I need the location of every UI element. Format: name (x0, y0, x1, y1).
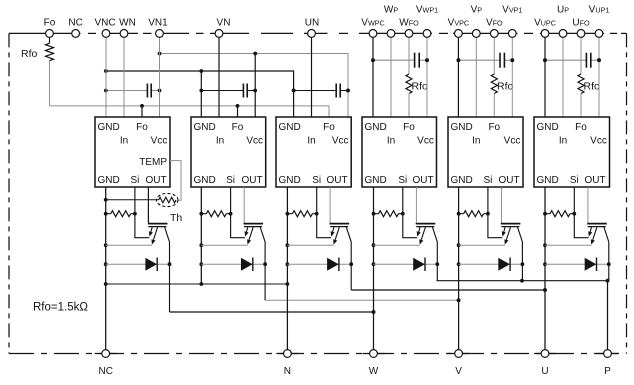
wire Fo net to Fo bus (49, 61, 51, 106)
wire VFO lower (493, 94, 495, 118)
transistor Q6 (IGBT) (587, 224, 609, 245)
wire WFO lower (408, 94, 410, 118)
svg-text:UFO: UFO (572, 17, 590, 28)
svg-text:OUT: OUT (412, 175, 433, 186)
wire UFO lower (580, 94, 582, 118)
svg-text:OUT: OUT (326, 175, 347, 186)
wire Si sense phase 3 (317, 187, 331, 238)
resistor gate R6 (545, 211, 576, 217)
svg-text:UN: UN (305, 17, 319, 28)
capacitor C4 (VWPC-VWP1) (371, 53, 429, 68)
wire collector of Q3 to output (349, 242, 547, 292)
resistor gate R5 (459, 211, 490, 217)
svg-text:Si: Si (226, 175, 235, 186)
resistor gate R3 (287, 211, 318, 217)
pin VNC (94, 17, 115, 117)
svg-text:NC: NC (68, 17, 82, 28)
resistor Rfo (VFO) (491, 74, 497, 94)
svg-text:WP: WP (384, 5, 398, 16)
capacitor C6 (VUPC-VUP1) (543, 53, 601, 68)
svg-text:OUT: OUT (498, 175, 519, 186)
wire GND drop box2 (200, 71, 202, 117)
capacitor C2 (box2 GND-Vcc) (199, 84, 257, 98)
pin U (bottom) (541, 350, 549, 377)
svg-text:GND: GND (365, 122, 387, 133)
diode D1 (145, 258, 157, 272)
diode D6 (585, 258, 597, 272)
op-amp substitute: gate driver IC U5 (448, 117, 523, 187)
wire WFO upper (408, 33, 410, 74)
svg-text:W: W (369, 366, 379, 377)
resistor Rfo (WFO) (406, 74, 412, 94)
wire OUT gate drive phase 3 (329, 187, 331, 223)
wire freewheel diode row phase 2 (201, 263, 265, 265)
pin NC (bottom) (98, 350, 112, 377)
wire emitter/GND rail phase 6 (543, 187, 547, 354)
wire freewheel diode row phase 5 (459, 263, 523, 265)
svg-text:GND: GND (537, 175, 559, 186)
wire emitter return phase 4 (374, 244, 420, 246)
pin VP (471, 5, 483, 38)
wire collector of Q1 to output (168, 242, 376, 314)
wire OUT gate drive phase 4 (415, 187, 417, 223)
svg-text:Fo: Fo (488, 122, 500, 133)
wire N bus (low-side emitters) (106, 282, 288, 286)
capacitor C1 (VNC-VN1) (104, 84, 162, 98)
svg-text:GND: GND (279, 122, 301, 133)
svg-text:WN: WN (119, 17, 136, 28)
svg-text:Vcc: Vcc (151, 136, 168, 147)
svg-text:Si: Si (570, 175, 579, 186)
wire VVP1 supply (510, 33, 514, 117)
wire emitter return phase 6 (545, 244, 591, 246)
svg-text:Fo: Fo (575, 122, 587, 133)
op-amp substitute: gate driver IC U4 (362, 117, 437, 187)
op-amp substitute: gate driver IC U3 (276, 117, 351, 187)
wire emitter/GND rail phase 5 (457, 187, 461, 354)
resistor gate R2 (201, 211, 232, 217)
svg-text:N: N (284, 366, 291, 377)
svg-text:VN: VN (217, 17, 231, 28)
label Rfo (UFO) (584, 81, 601, 93)
pin NC (top) (68, 17, 82, 37)
wire V-side control supply VPC (457, 33, 461, 117)
wire Fo drop box1 (141, 106, 143, 117)
pin Fo (44, 17, 56, 37)
svg-text:Si: Si (312, 175, 321, 186)
wire OUT gate drive phase 5 (501, 187, 503, 223)
svg-text:In: In (472, 136, 480, 147)
pin WN (119, 17, 136, 117)
svg-text:VN1: VN1 (148, 17, 168, 28)
resistor gate R1 (106, 211, 137, 217)
svg-text:In: In (216, 136, 224, 147)
svg-text:Rfo: Rfo (584, 81, 601, 93)
wire W-side control supply VPC (371, 33, 375, 117)
svg-text:Rfo=1.5kΩ: Rfo=1.5kΩ (33, 302, 88, 314)
thermistor Th (156, 193, 178, 206)
pin UP (557, 5, 569, 38)
svg-text:VNC: VNC (94, 17, 115, 28)
diode D3 (327, 258, 339, 272)
capacitor C3 (box3 GND-Vcc) (292, 84, 350, 98)
svg-text:GND: GND (451, 122, 473, 133)
pin UN (305, 17, 319, 117)
pin UFO (572, 17, 590, 37)
resistor Rfo (fault output pull-up) (46, 38, 54, 61)
svg-text:Vcc: Vcc (417, 136, 434, 147)
wire U-side control supply VPC (543, 33, 547, 117)
svg-text:VWP1: VWP1 (416, 5, 438, 16)
svg-text:Rfo: Rfo (412, 81, 429, 93)
wire collector of Q2 to output (263, 242, 460, 302)
svg-text:Vcc: Vcc (246, 136, 263, 147)
wire freewheel diode row phase 6 (545, 263, 609, 265)
wire Si sense phase 1 (135, 187, 149, 238)
wire emitter return phase 5 (459, 244, 505, 246)
wire emitter return phase 2 (201, 244, 247, 246)
wire VFO upper (493, 33, 495, 74)
wire Si sense phase 2 (231, 187, 245, 238)
wire VN1 supply bus (158, 52, 350, 117)
wire VUP1 supply (597, 33, 601, 117)
svg-text:V: V (455, 366, 462, 377)
svg-text:Si: Si (398, 175, 407, 186)
wire UP input (562, 33, 564, 117)
svg-text:GND: GND (537, 122, 559, 133)
op-amp substitute: gate driver IC U2 (191, 117, 266, 187)
resistor Rfo (UFO) (578, 74, 584, 94)
svg-text:TEMP: TEMP (139, 157, 167, 168)
wire freewheel diode row phase 4 (374, 263, 438, 265)
svg-text:In: In (559, 136, 567, 147)
pin P (bottom) (604, 350, 612, 377)
resistor gate R4 (374, 211, 405, 217)
svg-text:In: In (307, 136, 315, 147)
wire collector of Q5 to output (521, 242, 525, 281)
svg-text:VFO: VFO (486, 17, 503, 28)
svg-text:In: In (120, 136, 128, 147)
transistor Q3 (IGBT) (330, 224, 352, 245)
svg-text:VP: VP (471, 5, 483, 16)
wire collector of Q4 to output (435, 242, 439, 281)
svg-text:GND: GND (365, 175, 387, 186)
svg-text:VUPC: VUPC (534, 17, 556, 28)
wire Si sense phase 6 (574, 187, 588, 238)
svg-text:GND: GND (98, 175, 120, 186)
wire emitter return phase 1 (106, 244, 152, 246)
pin VVP1 (502, 5, 522, 38)
wire VP input (475, 33, 477, 117)
wire freewheel diode row phase 1 (106, 263, 170, 265)
wire WP input (390, 33, 392, 117)
svg-text:Fo: Fo (44, 17, 56, 28)
svg-text:VVP1: VVP1 (502, 5, 522, 16)
svg-text:OUT: OUT (145, 175, 166, 186)
svg-text:Fo: Fo (136, 122, 148, 133)
wire emitter/GND rail phase 2 (199, 187, 203, 284)
wire Si sense phase 4 (403, 187, 417, 238)
svg-text:GND: GND (279, 175, 301, 186)
wire P rail (607, 281, 609, 354)
wire Fo drop box2 (237, 106, 239, 117)
transistor Q5 (IGBT) (501, 224, 523, 245)
diode D2 (241, 258, 253, 272)
wire UFO upper (580, 33, 582, 74)
svg-text:VUP1: VUP1 (589, 5, 610, 16)
pin V (bottom) (455, 350, 463, 377)
wire freewheel diode row phase 3 (287, 263, 351, 265)
capacitor C5 (VVPC-VVP1) (457, 53, 515, 68)
wire Fo bus (to driver Fo pins) (50, 104, 330, 117)
wire Si sense phase 5 (488, 187, 502, 238)
svg-text:WFO: WFO (399, 17, 419, 28)
diode D4 (413, 258, 425, 272)
svg-text:OUT: OUT (584, 175, 605, 186)
label Rfo value (33, 302, 88, 314)
svg-text:GND: GND (194, 122, 216, 133)
wire emitter return phase 3 (287, 244, 333, 246)
wire thermistor to GND rail (106, 199, 159, 201)
pin WP (384, 5, 398, 38)
pin VWPC (361, 17, 384, 37)
wire VWP1 supply (425, 33, 429, 117)
op-amp substitute: gate driver IC U1 (95, 117, 170, 187)
transistor Q2 (IGBT) (244, 224, 266, 245)
label Rfo (WFO) (412, 81, 429, 93)
transistor Q1 (IGBT) (148, 224, 170, 245)
pin N (bottom) (284, 350, 292, 377)
wire OUT gate drive phase 1 (147, 187, 149, 223)
svg-text:GND: GND (451, 175, 473, 186)
transistor Q4 (IGBT) (416, 224, 438, 245)
svg-text:Si: Si (130, 175, 139, 186)
svg-text:Fo: Fo (403, 122, 415, 133)
svg-text:Fo: Fo (323, 122, 335, 133)
pin VN (215, 17, 230, 117)
svg-text:GND: GND (194, 175, 216, 186)
svg-text:GND: GND (98, 122, 120, 133)
wire P bus (high-side collectors) (437, 279, 610, 283)
wire collector of Q6 to output (607, 242, 611, 281)
svg-text:VVPC: VVPC (448, 17, 469, 28)
wire emitter/GND rail phase 1 (104, 187, 108, 354)
pin WFO (399, 17, 419, 37)
pin VVPC (448, 17, 469, 37)
pin W (bottom) (369, 350, 379, 377)
svg-text:Vcc: Vcc (590, 136, 607, 147)
svg-text:UP: UP (557, 5, 569, 16)
pin VUPC (534, 17, 556, 37)
svg-text:P: P (604, 366, 611, 377)
label Th (170, 212, 182, 224)
pin VFO (486, 17, 503, 37)
wire Vcc drop box2 (254, 54, 256, 118)
wire TEMP lead (170, 161, 181, 201)
svg-text:NC: NC (98, 366, 112, 377)
svg-text:Vcc: Vcc (504, 136, 521, 147)
svg-text:VWPC: VWPC (361, 17, 384, 28)
wire emitter/GND rail phase 4 (372, 187, 376, 354)
svg-text:In: In (387, 136, 395, 147)
pin VUP1 (589, 5, 610, 38)
svg-text:U: U (541, 366, 548, 377)
wire emitter/GND rail phase 3 (286, 187, 290, 354)
wire VNC ground bus (104, 69, 296, 117)
svg-text:Si: Si (483, 175, 492, 186)
label Rfo (21, 48, 38, 60)
pin VWP1 (416, 5, 438, 38)
svg-text:Rfo: Rfo (497, 81, 514, 93)
pin VN1 (148, 17, 168, 117)
svg-text:Rfo: Rfo (21, 48, 38, 60)
diode D5 (498, 258, 510, 272)
wire OUT gate drive phase 6 (587, 187, 589, 223)
svg-text:Th: Th (170, 212, 182, 224)
svg-text:OUT: OUT (241, 175, 262, 186)
wire OUT gate drive phase 2 (243, 187, 245, 223)
svg-text:Fo: Fo (232, 122, 244, 133)
op-amp substitute: gate driver IC U6 (534, 117, 610, 187)
label Rfo (VFO) (497, 81, 514, 93)
svg-text:Vcc: Vcc (332, 136, 349, 147)
